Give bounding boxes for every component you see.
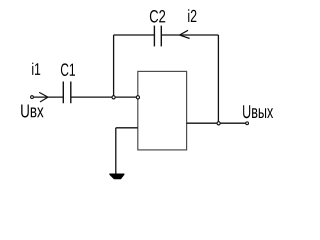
node label Uвых — [243, 105, 273, 118]
wire: ground leg vertical — [115, 128, 117, 174]
wire: input terminal to C1 left plate — [34, 96, 64, 98]
wire: feedback top right segment — [161, 34, 218, 36]
input terminal circle — [31, 96, 34, 99]
current arrow i1 — [39, 92, 48, 102]
label C1 — [61, 63, 75, 76]
capacitor C1 — [63, 82, 71, 104]
wire: feedback right vertical — [217, 35, 219, 123]
junction node: feedback tap on input wire — [112, 96, 115, 99]
wire: feedback left vertical — [113, 35, 115, 97]
wire: output — [187, 122, 246, 124]
label i1 — [32, 63, 40, 75]
label i2 — [188, 9, 196, 22]
op-amp U1 (amplifier rectangle) — [138, 71, 187, 149]
node label Uвх — [21, 105, 43, 118]
junction node: amplifier input pin — [136, 96, 139, 99]
label C2 — [150, 10, 165, 23]
ground — [109, 174, 124, 180]
capacitor C2 — [154, 26, 161, 47]
wire: feedback top left segment — [114, 34, 155, 36]
output terminal circle — [246, 122, 249, 125]
current arrow i2 — [180, 30, 190, 38]
wire: C1 to amplifier input — [71, 96, 138, 98]
junction node: feedback tap on output wire — [217, 122, 220, 125]
wire: ground leg horizontal (amplifier second input) — [116, 127, 138, 129]
